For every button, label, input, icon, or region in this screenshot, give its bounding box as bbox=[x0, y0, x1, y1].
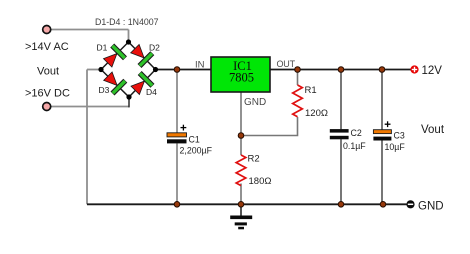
svg-text:D3: D3 bbox=[99, 85, 110, 95]
junction C3 on ground rail bbox=[380, 202, 386, 208]
junction C2 on ground rail bbox=[338, 202, 344, 208]
node bridge bottom bbox=[126, 94, 131, 99]
wire top AC feed drop to bridge top bbox=[128, 30, 130, 43]
svg-text:D1-D4 : 1N4007: D1-D4 : 1N4007 bbox=[95, 17, 159, 27]
label D1-D4 part number bbox=[95, 17, 159, 27]
wire bottom AC feed horizontal bbox=[47, 106, 129, 108]
diode D1 bbox=[104, 46, 126, 68]
wire ground rail bbox=[87, 203, 407, 205]
label C3 value bbox=[385, 142, 406, 152]
label C1 bbox=[189, 135, 200, 145]
wire bottom AC riser to bridge bottom bbox=[128, 97, 130, 107]
terminal +12V output bbox=[410, 65, 418, 73]
svg-text:IN: IN bbox=[195, 60, 205, 71]
capacitor C1 electrolytic bbox=[167, 125, 187, 144]
svg-text:GND: GND bbox=[418, 201, 444, 213]
svg-text:D1: D1 bbox=[97, 43, 108, 53]
svg-text:Vout: Vout bbox=[37, 66, 59, 78]
diode D2 bbox=[131, 45, 153, 67]
label D1 bbox=[97, 43, 108, 53]
wire top AC feed horizontal bbox=[47, 29, 129, 31]
label GND right bbox=[418, 201, 444, 213]
svg-text:>14V AC: >14V AC bbox=[25, 41, 69, 53]
svg-text:R1: R1 bbox=[305, 85, 317, 96]
label D3 bbox=[99, 85, 110, 95]
wire ground symbol stub bbox=[240, 204, 242, 215]
label Vout right bbox=[421, 124, 445, 136]
label 12V bbox=[422, 65, 443, 77]
node bridge left bbox=[98, 67, 103, 72]
junction C1 on ground rail bbox=[174, 202, 180, 208]
svg-text:OUT: OUT bbox=[277, 59, 296, 69]
svg-text:2,200µF: 2,200µF bbox=[180, 145, 213, 155]
junction C3 tap on OUT rail bbox=[379, 67, 385, 73]
label D2 bbox=[149, 43, 160, 53]
wire bridge edge bottom-right bbox=[129, 70, 156, 98]
svg-text:C1: C1 bbox=[189, 135, 200, 145]
wire IC GND pin drop bbox=[240, 92, 242, 136]
junction C2 tap on OUT rail bbox=[338, 67, 344, 73]
label >14V AC bbox=[25, 41, 69, 53]
svg-text:120Ω: 120Ω bbox=[305, 108, 328, 119]
ground bbox=[230, 216, 252, 230]
svg-text:D2: D2 bbox=[149, 43, 160, 53]
wire OUT rail bbox=[270, 69, 411, 71]
wire bridge edge left-bottom bbox=[101, 70, 129, 98]
svg-text:7805: 7805 bbox=[229, 71, 254, 85]
capacitor C2 bbox=[330, 129, 349, 139]
wire C2 branch upper bbox=[340, 70, 342, 130]
diode D3 bbox=[104, 72, 126, 94]
wire C3 branch upper bbox=[381, 70, 383, 130]
wire bridge edge top-right bbox=[129, 42, 156, 70]
svg-text:D4: D4 bbox=[146, 87, 157, 97]
resistor R2 bbox=[236, 155, 246, 186]
terminal GND output bbox=[406, 200, 414, 208]
node bridge top bbox=[126, 39, 131, 44]
wire bridge left stub bbox=[87, 69, 101, 71]
wire R1 branch upper bbox=[297, 70, 299, 86]
junction R2 on ground rail bbox=[238, 202, 244, 208]
svg-text:R2: R2 bbox=[248, 154, 260, 165]
wire left negative drop bbox=[86, 70, 88, 205]
wire C2 branch lower bbox=[340, 139, 342, 204]
terminal AC input bottom bbox=[43, 103, 51, 111]
wire bridge edge left-top bbox=[101, 42, 129, 70]
wire IN rail bbox=[156, 69, 212, 71]
wire R1 branch lower to mid junction bbox=[241, 117, 298, 136]
label C2 value bbox=[343, 141, 366, 151]
label IN pin bbox=[195, 60, 205, 71]
junction mid GND pin / R1 / R2 bbox=[238, 133, 244, 139]
label Vout left bbox=[37, 66, 59, 78]
svg-text:10µF: 10µF bbox=[385, 142, 406, 152]
terminal AC input top bbox=[43, 26, 51, 34]
op-amp IC1 regulator box bbox=[211, 57, 270, 92]
wire C1 branch upper bbox=[176, 70, 178, 133]
svg-text:12V: 12V bbox=[422, 65, 443, 77]
label C2 bbox=[351, 128, 362, 138]
label R1 value 120 ohm bbox=[305, 108, 328, 119]
junction C1 tap on IN rail bbox=[174, 67, 180, 73]
label OUT pin bbox=[277, 59, 296, 69]
svg-text:180Ω: 180Ω bbox=[249, 176, 272, 187]
svg-text:>16V DC: >16V DC bbox=[25, 88, 70, 100]
svg-text:C3: C3 bbox=[394, 131, 405, 141]
diode D4 bbox=[131, 73, 153, 95]
wire mid junction to R2 top bbox=[240, 136, 242, 156]
svg-text:GND: GND bbox=[244, 97, 266, 108]
svg-text:0.1µF: 0.1µF bbox=[343, 141, 366, 151]
capacitor C3 electrolytic bbox=[373, 121, 391, 140]
wire C3 branch lower bbox=[381, 140, 383, 204]
label GND pin bbox=[244, 97, 266, 108]
svg-text:C2: C2 bbox=[351, 128, 362, 138]
node bridge right bbox=[153, 67, 158, 72]
wire C1 branch lower bbox=[176, 143, 178, 204]
label C3 bbox=[394, 131, 405, 141]
svg-text:Vout: Vout bbox=[421, 124, 445, 136]
label D4 bbox=[146, 87, 157, 97]
wire R2 bottom to ground rail bbox=[240, 184, 242, 205]
label R2 value 180 ohm bbox=[249, 176, 272, 187]
label R2 bbox=[248, 154, 260, 165]
label R1 bbox=[305, 85, 317, 96]
label >16V DC bbox=[25, 88, 70, 100]
label C1 value bbox=[180, 145, 213, 155]
resistor R1 bbox=[293, 85, 303, 117]
junction R1 tap on OUT rail bbox=[295, 67, 301, 73]
